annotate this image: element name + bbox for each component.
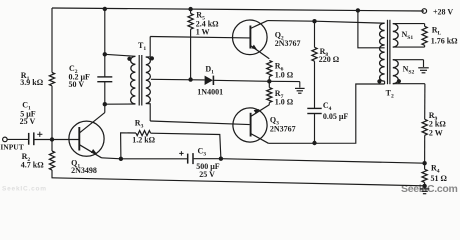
svg-text:2N3498: 2N3498 [71,166,97,175]
svg-text:220 Ω: 220 Ω [319,55,340,64]
svg-text:2N3767: 2N3767 [275,39,301,48]
svg-text:4.7 kΩ: 4.7 kΩ [21,161,44,170]
svg-text:1 W: 1 W [196,27,210,36]
svg-text:2 kΩ: 2 kΩ [429,119,446,128]
svg-text:25 V: 25 V [20,117,36,126]
svg-text:2 W: 2 W [429,128,443,137]
svg-text:25 V: 25 V [199,170,215,179]
svg-text:1.2 kΩ: 1.2 kΩ [132,136,155,145]
svg-text:51 Ω: 51 Ω [431,174,448,183]
svg-text:1.0 Ω: 1.0 Ω [275,98,294,107]
svg-text:SeekIC.com: SeekIC.com [2,186,47,193]
svg-text:1.0 Ω: 1.0 Ω [275,71,294,80]
svg-text:+28 V: +28 V [433,8,453,17]
svg-text:3.9 kΩ: 3.9 kΩ [20,78,43,87]
svg-text:50 V: 50 V [69,80,85,89]
svg-text:2N3767: 2N3767 [270,125,296,134]
svg-text:1.76 kΩ: 1.76 kΩ [431,36,458,45]
svg-text:INPUT: INPUT [0,143,23,152]
svg-text:0.05 μF: 0.05 μF [323,112,349,121]
svg-text:1N4001: 1N4001 [197,87,223,96]
